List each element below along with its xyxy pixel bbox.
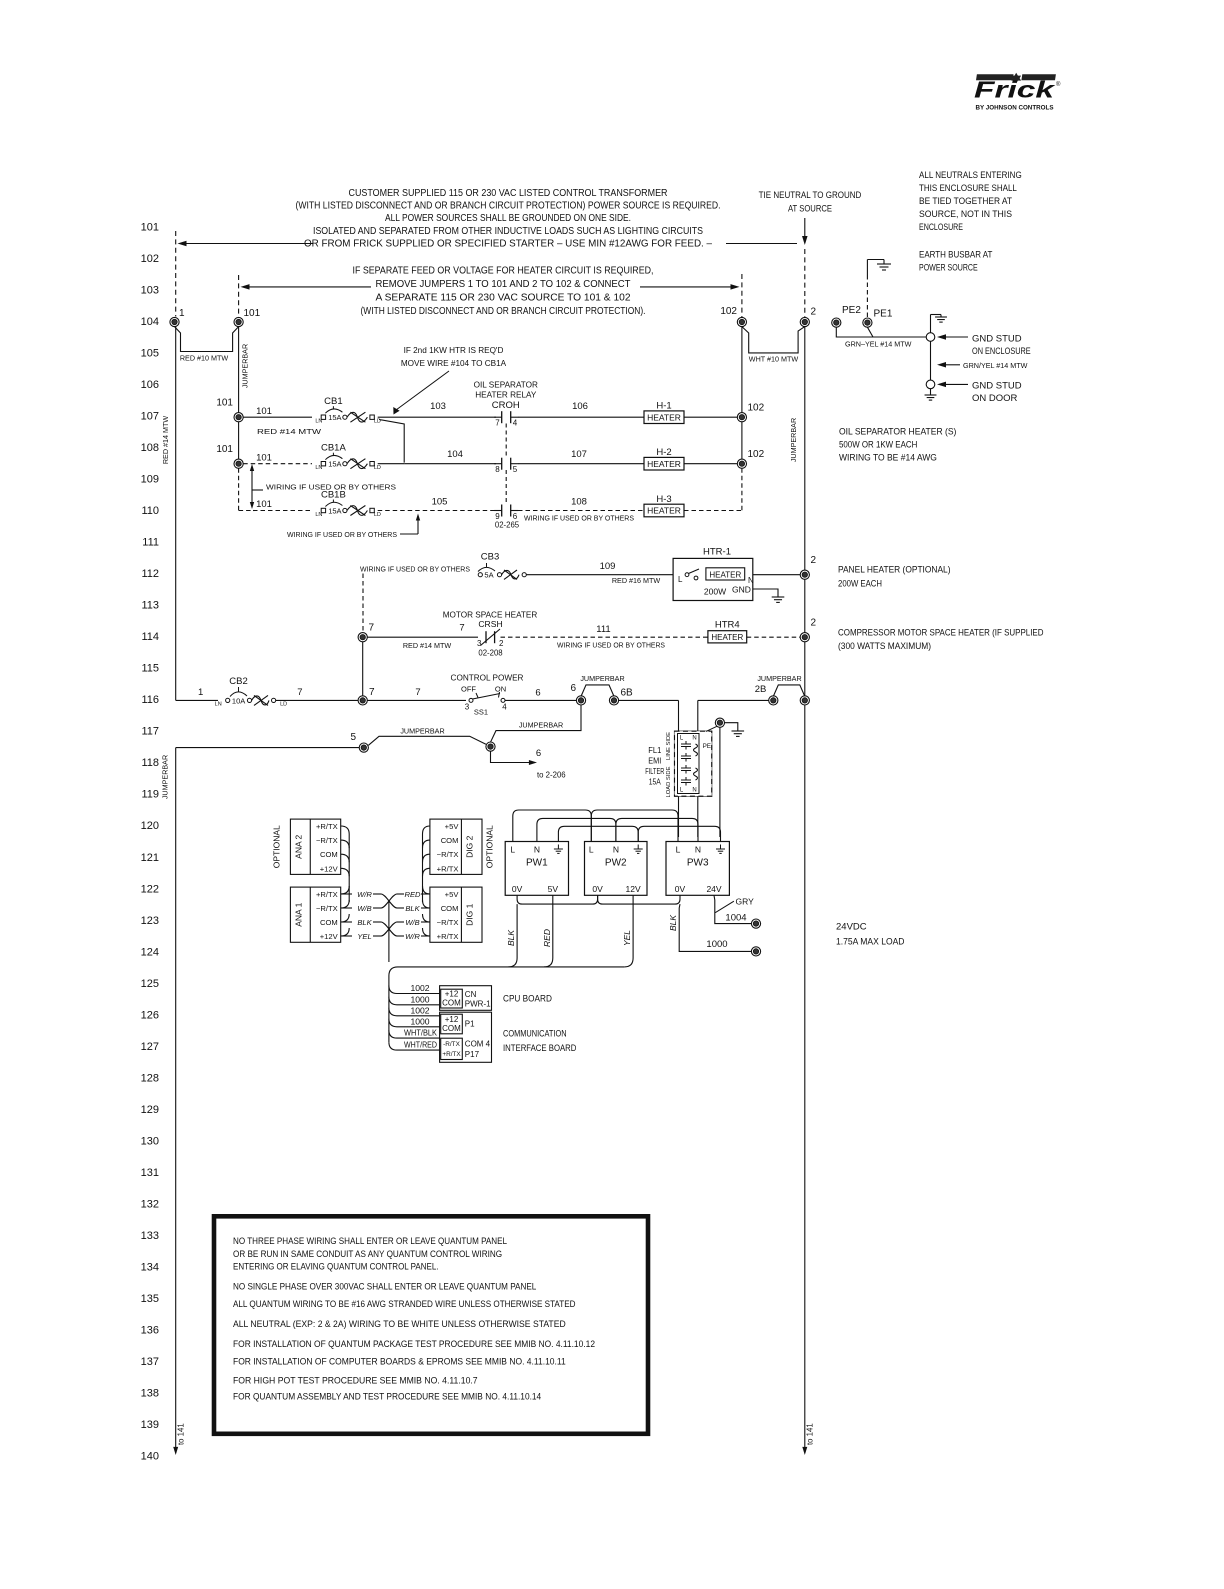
svg-text:106: 106 — [141, 379, 159, 391]
svg-text:EMI: EMI — [648, 757, 661, 766]
svg-text:P1: P1 — [465, 1020, 475, 1029]
svg-text:CRSH: CRSH — [478, 619, 502, 629]
svg-text:1004: 1004 — [725, 912, 746, 923]
svg-text:15A: 15A — [328, 413, 341, 422]
svg-text:PE2: PE2 — [842, 305, 861, 316]
svg-text:to 2-206: to 2-206 — [537, 771, 566, 780]
svg-text:(WITH LISTED DISCONNECT AND OR: (WITH LISTED DISCONNECT AND OR BRANCH CI… — [296, 201, 721, 212]
svg-text:SOURCE, NOT IN THIS: SOURCE, NOT IN THIS — [919, 209, 1012, 220]
svg-text:200W: 200W — [704, 587, 726, 597]
svg-text:JUMPERBAR: JUMPERBAR — [757, 674, 801, 683]
svg-text:FOR HIGH POT TEST PROCEDURE SE: FOR HIGH POT TEST PROCEDURE SEE MMIB NO.… — [233, 1375, 478, 1386]
svg-text:N: N — [534, 845, 540, 855]
svg-text:LN: LN — [215, 702, 222, 708]
svg-text:(WITH LISTED DISCONNECT AND OR: (WITH LISTED DISCONNECT AND OR BRANCH CI… — [361, 306, 646, 317]
svg-text:128: 128 — [141, 1072, 159, 1084]
svg-text:8: 8 — [495, 465, 500, 474]
svg-text:103: 103 — [430, 401, 446, 412]
svg-text:ISOLATED AND SEPARATED FROM OT: ISOLATED AND SEPARATED FROM OTHER INDUCT… — [313, 226, 703, 237]
svg-text:INTERFACE BOARD: INTERFACE BOARD — [503, 1043, 577, 1054]
svg-text:FOR INSTALLATION OF QUANTUM PA: FOR INSTALLATION OF QUANTUM PACKAGE TEST… — [233, 1339, 595, 1350]
svg-text:+12: +12 — [445, 1015, 459, 1024]
svg-text:H-2: H-2 — [656, 447, 671, 458]
svg-text:JUMPERBAR: JUMPERBAR — [789, 418, 798, 462]
svg-text:109: 109 — [600, 561, 616, 572]
svg-text:COM 4: COM 4 — [465, 1040, 491, 1049]
svg-text:HTR-1: HTR-1 — [703, 547, 731, 558]
svg-text:OR BE RUN IN SAME CONDUIT AS A: OR BE RUN IN SAME CONDUIT AS ANY QUANTUM… — [233, 1249, 502, 1260]
svg-text:JUMPERBAR: JUMPERBAR — [161, 755, 170, 799]
svg-text:GND: GND — [732, 585, 751, 595]
svg-text:+R/TX: +R/TX — [437, 864, 459, 873]
svg-text:A SEPARATE 115 OR 230 VAC SOUR: A SEPARATE 115 OR 230 VAC SOURCE TO 101 … — [376, 293, 631, 304]
svg-text:+R/TX: +R/TX — [442, 1051, 461, 1058]
svg-text:W/R: W/R — [405, 932, 420, 941]
svg-text:135: 135 — [141, 1293, 159, 1305]
svg-text:REMOVE JUMPERS 1 TO 101 AND 2: REMOVE JUMPERS 1 TO 101 AND 2 TO 102 & C… — [376, 279, 631, 290]
svg-text:119: 119 — [141, 789, 159, 801]
svg-text:BLK: BLK — [357, 918, 372, 927]
svg-text:117: 117 — [141, 726, 159, 738]
svg-text:FL1: FL1 — [648, 746, 662, 755]
svg-text:101: 101 — [256, 453, 272, 464]
svg-text:HEATER RELAY: HEATER RELAY — [475, 391, 537, 400]
svg-text:PW3: PW3 — [687, 858, 709, 869]
svg-text:15A: 15A — [649, 778, 662, 787]
svg-text:W/B: W/B — [357, 904, 371, 913]
svg-text:OPTIONAL: OPTIONAL — [485, 825, 495, 868]
svg-text:TIE NEUTRAL TO GROUND: TIE NEUTRAL TO GROUND — [759, 190, 862, 201]
svg-text:139: 139 — [141, 1419, 159, 1431]
svg-text:IF 2nd 1KW HTR IS REQ'D: IF 2nd 1KW HTR IS REQ'D — [404, 346, 504, 355]
svg-text:121: 121 — [141, 852, 159, 864]
svg-text:COM: COM — [441, 836, 459, 845]
svg-text:COMMUNICATION: COMMUNICATION — [503, 1029, 567, 1040]
svg-text:RED: RED — [542, 929, 552, 947]
svg-text:Frick: Frick — [974, 77, 1056, 103]
svg-text:HTR4: HTR4 — [715, 620, 740, 631]
svg-text:COMPRESSOR MOTOR SPACE HEATER: COMPRESSOR MOTOR SPACE HEATER (IF SUPPLI… — [838, 627, 1044, 638]
svg-text:3: 3 — [477, 639, 482, 648]
svg-text:(300 WATTS MAXIMUM): (300 WATTS MAXIMUM) — [838, 641, 931, 652]
svg-text:THIS ENCLOSURE SHALL: THIS ENCLOSURE SHALL — [919, 183, 1017, 194]
svg-text:N: N — [692, 736, 696, 742]
svg-text:PE1: PE1 — [874, 309, 893, 320]
svg-text:102: 102 — [748, 449, 765, 460]
svg-text:2: 2 — [811, 618, 817, 629]
svg-text:7: 7 — [297, 687, 302, 698]
svg-text:6: 6 — [536, 748, 541, 759]
svg-text:-R/TX: -R/TX — [443, 1041, 460, 1048]
svg-text:FILTER: FILTER — [645, 767, 664, 776]
svg-text:110: 110 — [141, 505, 159, 517]
svg-text:OIL SEPARATOR: OIL SEPARATOR — [474, 381, 538, 390]
svg-text:P17: P17 — [465, 1050, 480, 1059]
svg-text:BLK: BLK — [506, 930, 516, 946]
svg-text:02-208: 02-208 — [478, 649, 502, 658]
svg-text:ON ENCLOSURE: ON ENCLOSURE — [972, 346, 1031, 357]
svg-text:ON: ON — [495, 685, 506, 694]
svg-text:7: 7 — [369, 623, 375, 634]
svg-text:12V: 12V — [626, 884, 641, 894]
svg-text:WIRING TO BE #14 AWG: WIRING TO BE #14 AWG — [839, 453, 937, 464]
svg-text:JUMPERBAR: JUMPERBAR — [580, 674, 624, 683]
svg-text:FOR QUANTUM ASSEMBLY AND TEST: FOR QUANTUM ASSEMBLY AND TEST PROCEDURE … — [233, 1391, 541, 1402]
svg-text:RED #14 MTW: RED #14 MTW — [161, 416, 170, 465]
svg-text:JUMPERBAR: JUMPERBAR — [400, 727, 444, 736]
svg-text:SS1: SS1 — [474, 708, 488, 717]
svg-text:CB1: CB1 — [324, 396, 342, 407]
svg-text:ALL QUANTUM WIRING TO BE #16 A: ALL QUANTUM WIRING TO BE #16 AWG STRANDE… — [233, 1299, 576, 1310]
svg-text:129: 129 — [141, 1104, 159, 1116]
svg-text:7: 7 — [369, 687, 375, 698]
svg-text:PE: PE — [703, 743, 711, 750]
svg-text:5: 5 — [350, 732, 356, 743]
svg-text:+R/TX: +R/TX — [316, 822, 338, 831]
svg-text:CB1B: CB1B — [321, 490, 346, 501]
svg-text:LOAD SIDE: LOAD SIDE — [666, 766, 672, 797]
svg-text:CB2: CB2 — [229, 676, 247, 687]
svg-text:118: 118 — [141, 757, 159, 769]
svg-text:L: L — [589, 845, 594, 855]
svg-text:W/B: W/B — [405, 918, 419, 927]
svg-text:N: N — [613, 845, 619, 855]
svg-text:114: 114 — [141, 631, 159, 643]
svg-text:136: 136 — [141, 1324, 159, 1336]
svg-text:OR FROM FRICK SUPPLIED OR SPEC: OR FROM FRICK SUPPLIED OR SPECIFIED STAR… — [304, 238, 712, 249]
svg-text:1000: 1000 — [410, 1016, 429, 1026]
svg-text:CROH: CROH — [492, 400, 520, 411]
svg-text:MOVE WIRE #104 TO CB1A: MOVE WIRE #104 TO CB1A — [401, 359, 507, 368]
svg-text:PANEL HEATER (OPTIONAL): PANEL HEATER (OPTIONAL) — [838, 565, 951, 576]
svg-text:131: 131 — [141, 1167, 159, 1179]
svg-text:6B: 6B — [621, 688, 634, 699]
svg-text:10A: 10A — [232, 696, 245, 705]
svg-text:107: 107 — [571, 449, 587, 460]
svg-text:COM: COM — [320, 850, 338, 859]
svg-text:5A: 5A — [484, 571, 493, 580]
svg-text:OIL SEPARATOR HEATER (S): OIL SEPARATOR HEATER (S) — [839, 427, 956, 438]
svg-text:RED #10 MTW: RED #10 MTW — [180, 354, 229, 363]
svg-text:L: L — [676, 845, 681, 855]
svg-text:DIG 1: DIG 1 — [465, 903, 475, 925]
svg-text:102: 102 — [720, 306, 737, 317]
svg-text:WIRING IF USED OR BY OTHERS: WIRING IF USED OR BY OTHERS — [360, 565, 470, 574]
svg-text:24V: 24V — [706, 884, 721, 894]
svg-text:107: 107 — [141, 411, 159, 423]
svg-text:to 141: to 141 — [177, 1423, 186, 1445]
svg-text:125: 125 — [141, 978, 159, 990]
svg-text:+R/TX: +R/TX — [437, 932, 459, 941]
svg-text:OPTIONAL: OPTIONAL — [272, 825, 282, 868]
svg-text:500W OR 1KW EACH: 500W OR 1KW EACH — [839, 440, 917, 451]
svg-text:OFF: OFF — [461, 685, 476, 694]
svg-text:LINE SIDE: LINE SIDE — [666, 732, 672, 760]
svg-text:FOR INSTALLATION OF COMPUTER B: FOR INSTALLATION OF COMPUTER BOARDS & EP… — [233, 1357, 566, 1368]
svg-text:IF SEPARATE FEED OR VOLTAGE FO: IF SEPARATE FEED OR VOLTAGE FOR HEATER C… — [353, 266, 654, 277]
svg-text:ALL NEUTRAL (EXP: 2 & 2A) WIRI: ALL NEUTRAL (EXP: 2 & 2A) WIRING TO BE W… — [233, 1319, 566, 1330]
svg-text:GRY: GRY — [736, 897, 755, 907]
svg-text:2: 2 — [811, 555, 817, 566]
svg-text:+5V: +5V — [445, 890, 460, 899]
svg-text:JUMPERBAR: JUMPERBAR — [519, 721, 563, 730]
svg-text:102: 102 — [748, 403, 765, 414]
svg-text:BE TIED TOGETHER AT: BE TIED TOGETHER AT — [919, 196, 1012, 207]
svg-text:7: 7 — [415, 687, 420, 698]
svg-text:YEL: YEL — [357, 932, 371, 941]
svg-text:104: 104 — [447, 449, 463, 460]
svg-text:−R/TX: −R/TX — [316, 904, 338, 913]
svg-text:122: 122 — [141, 883, 159, 895]
svg-text:to 141: to 141 — [806, 1423, 815, 1445]
svg-text:GND STUD: GND STUD — [972, 381, 1022, 392]
svg-text:DIG 2: DIG 2 — [465, 835, 475, 857]
svg-text:WHT/RED: WHT/RED — [404, 1040, 437, 1050]
svg-text:POWER SOURCE: POWER SOURCE — [919, 263, 978, 274]
svg-text:+12: +12 — [445, 990, 459, 999]
svg-text:5V: 5V — [548, 884, 559, 894]
svg-text:HEATER: HEATER — [647, 412, 681, 422]
svg-text:GRN–YEL #14 MTW: GRN–YEL #14 MTW — [845, 340, 912, 349]
svg-text:4: 4 — [513, 419, 518, 428]
svg-text:YEL: YEL — [622, 930, 632, 946]
svg-text:WIRING IF USED OR BY OTHERS: WIRING IF USED OR BY OTHERS — [287, 530, 397, 539]
svg-text:2B: 2B — [755, 684, 767, 695]
svg-text:RED #16 MTW: RED #16 MTW — [612, 576, 661, 585]
svg-text:108: 108 — [571, 497, 587, 508]
svg-text:ENTERING OR ELAVING QUANTUM CO: ENTERING OR ELAVING QUANTUM CONTROL PANE… — [233, 1262, 439, 1273]
svg-text:113: 113 — [141, 600, 159, 612]
svg-text:EARTH BUSBAR AT: EARTH BUSBAR AT — [919, 250, 993, 261]
svg-text:109: 109 — [141, 474, 159, 486]
svg-text:L: L — [510, 845, 515, 855]
svg-text:116: 116 — [141, 694, 159, 706]
svg-text:2: 2 — [811, 307, 817, 318]
svg-text:AT SOURCE: AT SOURCE — [788, 204, 832, 215]
svg-text:ANA 1: ANA 1 — [293, 902, 303, 926]
svg-text:124: 124 — [141, 946, 159, 958]
svg-text:6: 6 — [535, 688, 540, 699]
svg-text:NO SINGLE PHASE OVER 300VAC SH: NO SINGLE PHASE OVER 300VAC SHALL ENTER … — [233, 1282, 536, 1293]
svg-text:138: 138 — [141, 1387, 159, 1399]
svg-text:COM: COM — [442, 1024, 461, 1033]
svg-text:1: 1 — [198, 687, 203, 698]
svg-text:115: 115 — [141, 663, 159, 675]
svg-text:1002: 1002 — [410, 983, 429, 993]
svg-text:1000: 1000 — [706, 939, 727, 950]
svg-text:BLK: BLK — [668, 915, 678, 931]
svg-text:106: 106 — [572, 401, 588, 412]
svg-text:0V: 0V — [675, 884, 686, 894]
svg-text:ALL POWER SOURCES SHALL BE GRO: ALL POWER SOURCES SHALL BE GROUNDED ON O… — [385, 213, 631, 224]
svg-text:111: 111 — [596, 624, 610, 635]
svg-text:101: 101 — [256, 406, 272, 417]
svg-text:LD: LD — [374, 465, 381, 471]
svg-text:02-265: 02-265 — [495, 521, 520, 530]
svg-text:NO THREE PHASE WIRING SHALL EN: NO THREE PHASE WIRING SHALL ENTER OR LEA… — [233, 1236, 507, 1247]
svg-text:200W EACH: 200W EACH — [838, 578, 882, 589]
svg-text:H-1: H-1 — [656, 401, 671, 412]
svg-text:BY JOHNSON CONTROLS: BY JOHNSON CONTROLS — [976, 105, 1055, 112]
svg-text:LD: LD — [280, 702, 287, 708]
svg-text:105: 105 — [141, 348, 159, 360]
svg-text:®: ® — [1056, 81, 1061, 88]
svg-text:L: L — [678, 575, 683, 584]
svg-text:−R/TX: −R/TX — [437, 850, 459, 859]
svg-text:102: 102 — [141, 253, 159, 265]
svg-text:ANA 2: ANA 2 — [293, 834, 303, 858]
svg-text:103: 103 — [141, 285, 159, 297]
svg-text:PW1: PW1 — [526, 858, 548, 869]
svg-text:127: 127 — [141, 1041, 159, 1053]
svg-text:+R/TX: +R/TX — [316, 890, 338, 899]
svg-text:4: 4 — [502, 703, 507, 712]
svg-text:N: N — [695, 845, 701, 855]
svg-text:PW2: PW2 — [605, 858, 627, 869]
svg-text:HEATER: HEATER — [647, 459, 681, 469]
svg-text:101: 101 — [216, 398, 233, 409]
svg-text:101: 101 — [244, 308, 261, 319]
svg-text:120: 120 — [141, 820, 159, 832]
svg-text:PWR-1: PWR-1 — [465, 1000, 491, 1009]
svg-text:104: 104 — [141, 316, 159, 328]
svg-text:GRN/YEL #14 MTW: GRN/YEL #14 MTW — [963, 361, 1028, 370]
svg-text:123: 123 — [141, 915, 159, 927]
svg-text:RED #14 MTW: RED #14 MTW — [257, 427, 321, 436]
svg-text:101: 101 — [216, 444, 233, 455]
svg-text:+5V: +5V — [445, 822, 460, 831]
svg-text:COM: COM — [442, 999, 461, 1008]
svg-text:ON DOOR: ON DOOR — [972, 393, 1018, 404]
svg-text:101: 101 — [141, 222, 159, 234]
svg-text:6: 6 — [570, 683, 576, 694]
svg-text:+12V: +12V — [320, 932, 339, 941]
svg-text:1002: 1002 — [410, 1005, 429, 1015]
svg-text:WIRING IF USED OR BY OTHERS: WIRING IF USED OR BY OTHERS — [557, 641, 665, 650]
svg-text:HEATER: HEATER — [709, 570, 741, 579]
svg-text:+12V: +12V — [320, 864, 339, 873]
svg-text:101: 101 — [256, 499, 272, 510]
svg-text:W/R: W/R — [357, 890, 372, 899]
svg-text:CPU BOARD: CPU BOARD — [503, 994, 552, 1005]
svg-text:WIRING IF USED OR BY OTHERS: WIRING IF USED OR BY OTHERS — [524, 514, 634, 523]
svg-text:RED: RED — [404, 890, 421, 899]
svg-text:CB3: CB3 — [481, 552, 499, 563]
svg-text:134: 134 — [141, 1261, 159, 1273]
svg-text:137: 137 — [141, 1356, 159, 1368]
svg-text:RED #14 MTW: RED #14 MTW — [403, 641, 452, 650]
svg-text:ENCLOSURE: ENCLOSURE — [919, 222, 963, 233]
svg-text:−R/TX: −R/TX — [316, 836, 338, 845]
svg-text:7: 7 — [459, 623, 464, 634]
svg-text:COM: COM — [441, 904, 459, 913]
svg-text:CUSTOMER SUPPLIED 115 OR 230 V: CUSTOMER SUPPLIED 115 OR 230 VAC LISTED … — [349, 188, 668, 199]
svg-text:132: 132 — [141, 1198, 159, 1210]
svg-text:15A: 15A — [328, 460, 341, 469]
svg-text:112: 112 — [141, 568, 159, 580]
svg-text:LD: LD — [374, 512, 381, 518]
svg-text:HEATER: HEATER — [647, 506, 681, 516]
svg-text:24VDC: 24VDC — [836, 922, 867, 933]
svg-text:JUMPERBAR: JUMPERBAR — [241, 344, 250, 388]
svg-text:CN: CN — [465, 990, 477, 999]
svg-text:130: 130 — [141, 1135, 159, 1147]
svg-text:3: 3 — [465, 703, 470, 712]
svg-text:15A: 15A — [328, 507, 341, 516]
svg-text:140: 140 — [141, 1451, 159, 1463]
svg-text:2: 2 — [499, 639, 504, 648]
svg-text:N: N — [692, 788, 696, 794]
svg-text:108: 108 — [141, 442, 159, 454]
svg-text:1: 1 — [179, 308, 185, 319]
svg-text:CONTROL POWER: CONTROL POWER — [451, 674, 524, 683]
svg-text:133: 133 — [141, 1230, 159, 1242]
svg-text:0V: 0V — [512, 884, 523, 894]
svg-text:ALL NEUTRALS ENTERING: ALL NEUTRALS ENTERING — [919, 170, 1022, 181]
svg-text:1000: 1000 — [410, 994, 429, 1004]
svg-text:CB1A: CB1A — [321, 443, 346, 454]
svg-text:WHT #10 MTW: WHT #10 MTW — [749, 355, 799, 364]
svg-text:−R/TX: −R/TX — [437, 918, 459, 927]
svg-text:7: 7 — [495, 419, 500, 428]
svg-text:111: 111 — [142, 537, 159, 549]
svg-text:1.75A MAX LOAD: 1.75A MAX LOAD — [836, 937, 905, 948]
svg-text:BLK: BLK — [405, 904, 420, 913]
svg-text:GND STUD: GND STUD — [972, 334, 1022, 345]
svg-text:126: 126 — [141, 1009, 159, 1021]
svg-text:HEATER: HEATER — [711, 633, 743, 642]
svg-text:105: 105 — [432, 497, 448, 508]
svg-text:WHT/BLK: WHT/BLK — [404, 1028, 437, 1038]
svg-text:H-3: H-3 — [656, 494, 671, 505]
svg-text:0V: 0V — [592, 884, 603, 894]
svg-text:5: 5 — [513, 465, 518, 474]
svg-text:COM: COM — [320, 918, 338, 927]
